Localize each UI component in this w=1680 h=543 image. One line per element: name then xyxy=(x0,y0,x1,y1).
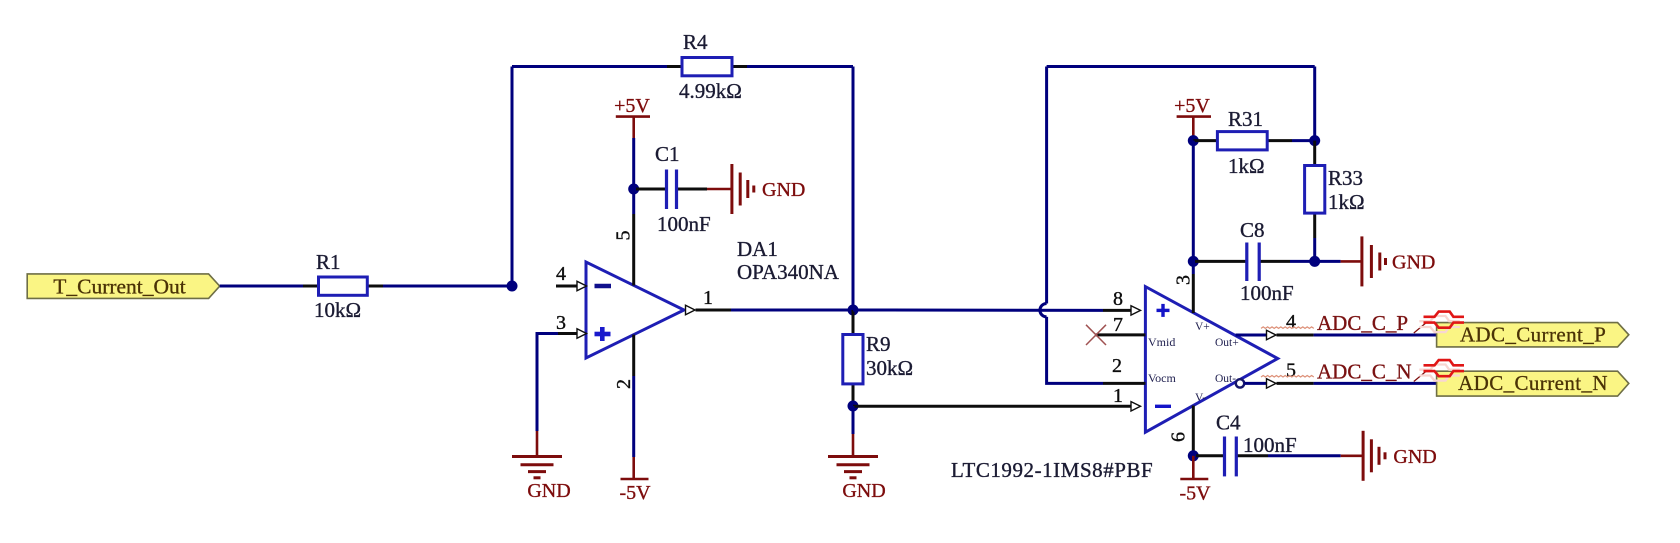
svg-text:R1: R1 xyxy=(316,250,341,274)
svg-text:5: 5 xyxy=(1286,360,1296,382)
wire xyxy=(1268,454,1341,457)
wire xyxy=(1192,261,1195,274)
svg-text:+5V: +5V xyxy=(1174,95,1210,117)
junction xyxy=(1188,256,1199,267)
svg-text:C4: C4 xyxy=(1216,411,1241,435)
svg-text:1: 1 xyxy=(703,287,713,309)
resistor R31 xyxy=(1193,107,1292,178)
svg-text:GND: GND xyxy=(762,179,805,201)
svg-text:3: 3 xyxy=(1173,275,1195,285)
svg-text:R33: R33 xyxy=(1328,166,1363,190)
svg-text:Vocm: Vocm xyxy=(1148,371,1176,385)
ground GND at R9 xyxy=(828,434,886,502)
svg-text:Out-: Out- xyxy=(1215,373,1236,385)
ground GND at C8 xyxy=(1341,236,1436,286)
svg-text:10kΩ: 10kΩ xyxy=(314,298,361,322)
junction xyxy=(848,305,859,316)
wire xyxy=(731,309,853,312)
capacitor C8 xyxy=(1195,218,1294,305)
ground GND at C1 xyxy=(707,164,805,214)
resistor R4 xyxy=(667,30,747,103)
svg-text:-5V: -5V xyxy=(1179,483,1211,505)
wire xyxy=(1292,139,1315,142)
power -5V (stage 2) xyxy=(1179,456,1211,505)
svg-text:GND: GND xyxy=(527,480,570,502)
svg-text:5: 5 xyxy=(612,231,634,241)
wire xyxy=(537,334,558,432)
svg-text:R31: R31 xyxy=(1228,107,1263,131)
no-connect X on pin 7 xyxy=(1086,325,1106,345)
resistor R9 xyxy=(843,310,913,406)
svg-text:ADC_Current_P: ADC_Current_P xyxy=(1460,323,1606,347)
svg-text:+5V: +5V xyxy=(614,95,650,117)
op-amp U2 LTC1992-1IMS8#PBF xyxy=(951,274,1314,482)
wire xyxy=(511,67,514,287)
svg-text:T_Current_Out: T_Current_Out xyxy=(53,274,186,298)
svg-text:6: 6 xyxy=(1168,432,1190,442)
wire xyxy=(1047,65,1315,68)
leader line N xyxy=(1414,371,1427,382)
wire xyxy=(853,405,1103,408)
svg-text:2: 2 xyxy=(1112,355,1122,377)
wire xyxy=(512,65,667,68)
wavy underline P xyxy=(1261,327,1314,329)
wire xyxy=(1290,260,1315,263)
power -5V xyxy=(619,457,651,504)
wire xyxy=(1315,260,1341,263)
svg-text:1: 1 xyxy=(1113,385,1123,407)
wire xyxy=(1047,317,1103,384)
wire xyxy=(852,406,855,434)
junction xyxy=(1309,135,1320,146)
port ADC_Current_N xyxy=(1437,371,1629,396)
svg-text:V-: V- xyxy=(1195,392,1206,404)
resistor R1 xyxy=(303,250,383,322)
capacitor C4 xyxy=(1196,411,1297,477)
junction xyxy=(628,184,639,195)
svg-text:1kΩ: 1kΩ xyxy=(1328,190,1365,214)
wire xyxy=(632,138,635,189)
junction xyxy=(1188,450,1199,461)
svg-text:1kΩ: 1kΩ xyxy=(1228,154,1265,178)
wavy underline N xyxy=(1261,376,1314,378)
power +5V xyxy=(614,95,650,138)
port T_Current_Out xyxy=(27,274,220,299)
svg-text:Vmid: Vmid xyxy=(1148,335,1175,349)
svg-text:100nF: 100nF xyxy=(657,212,711,236)
svg-text:V+: V+ xyxy=(1195,321,1210,333)
svg-text:R9: R9 xyxy=(866,332,891,356)
resistor R33 xyxy=(1305,141,1365,238)
junction xyxy=(1188,135,1199,146)
wire xyxy=(383,285,512,288)
svg-text:ADC_Current_N: ADC_Current_N xyxy=(1458,371,1608,395)
leader line P xyxy=(1414,322,1427,333)
svg-text:ADC_C_P: ADC_C_P xyxy=(1317,311,1408,335)
wire xyxy=(632,189,635,214)
svg-text:30kΩ: 30kΩ xyxy=(866,356,913,380)
svg-text:100nF: 100nF xyxy=(1240,281,1294,305)
wire xyxy=(852,67,855,311)
junction xyxy=(1309,256,1320,267)
op-amp DA1 OPA340NA xyxy=(556,214,840,389)
svg-text:C1: C1 xyxy=(655,142,680,166)
svg-text:2: 2 xyxy=(613,379,635,389)
svg-text:4: 4 xyxy=(556,263,566,285)
wire xyxy=(853,309,1103,312)
wire xyxy=(1314,382,1437,385)
svg-text:OPA340NA: OPA340NA xyxy=(737,260,840,284)
svg-text:4.99kΩ: 4.99kΩ xyxy=(679,79,742,103)
differential pair marker P xyxy=(1419,312,1464,333)
svg-text:GND: GND xyxy=(842,480,885,502)
svg-text:100nF: 100nF xyxy=(1243,433,1297,457)
svg-text:R4: R4 xyxy=(683,30,708,54)
svg-text:C8: C8 xyxy=(1240,218,1265,242)
svg-text:Out+: Out+ xyxy=(1215,337,1239,349)
ground GND at C4 xyxy=(1341,431,1437,481)
wire xyxy=(1192,141,1195,262)
svg-text:3: 3 xyxy=(556,312,566,334)
power +5V (stage 2) xyxy=(1174,95,1211,141)
svg-text:GND: GND xyxy=(1392,252,1435,274)
differential pair marker N xyxy=(1419,360,1464,381)
port ADC_Current_P xyxy=(1437,323,1629,347)
wire xyxy=(1045,67,1048,304)
capacitor C1 xyxy=(636,142,711,236)
svg-text:4: 4 xyxy=(1286,311,1296,333)
wire xyxy=(632,376,635,457)
svg-text:DA1: DA1 xyxy=(737,237,778,261)
wire xyxy=(1313,67,1316,141)
wire xyxy=(747,65,853,68)
wire xyxy=(220,285,306,288)
junction xyxy=(848,401,859,412)
svg-text:-5V: -5V xyxy=(619,482,651,504)
junction xyxy=(507,281,518,292)
svg-text:LTC1992-1IMS8#PBF: LTC1992-1IMS8#PBF xyxy=(951,458,1153,482)
wire xyxy=(1313,238,1316,261)
wire xyxy=(1314,334,1437,337)
svg-text:8: 8 xyxy=(1113,288,1123,310)
svg-text:GND: GND xyxy=(1393,446,1436,468)
ground GND at op-amp input xyxy=(512,431,571,502)
svg-text:7: 7 xyxy=(1113,314,1123,336)
svg-text:ADC_C_N: ADC_C_N xyxy=(1317,360,1412,384)
wire hop xyxy=(1040,304,1047,317)
